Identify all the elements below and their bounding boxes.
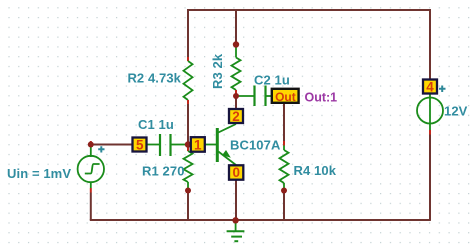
node 1 bbox=[191, 137, 205, 152]
junction V1 top corner bbox=[88, 142, 94, 148]
label Out:1 bbox=[305, 90, 338, 104]
label R4 10k bbox=[294, 163, 337, 178]
node 0 bbox=[229, 165, 243, 180]
resistor R4 bbox=[280, 141, 289, 189]
label 12V bbox=[444, 104, 468, 119]
svg-text:Uin = 1mV: Uin = 1mV bbox=[7, 166, 71, 181]
wire V1 to node 5 bbox=[91, 144, 133, 146]
svg-text:5: 5 bbox=[136, 138, 144, 153]
node 2 bbox=[229, 109, 243, 124]
junction node 1 bbox=[185, 141, 191, 147]
wire V1 bottom to rail bbox=[90, 193, 92, 221]
transistor Q1 BC107A bbox=[205, 124, 236, 165]
wire V2 bottom to rail bbox=[429, 135, 431, 221]
resistor R3 bbox=[232, 47, 241, 110]
wire R1 bottom to rail bbox=[187, 192, 189, 220]
wire right branch (rail to V2) bbox=[429, 9, 431, 80]
svg-text:R2 4.73k: R2 4.73k bbox=[127, 71, 181, 86]
label BC107A bbox=[230, 138, 281, 153]
label Uin = 1mV bbox=[7, 166, 71, 181]
svg-text:12V: 12V bbox=[444, 104, 468, 119]
label C2 1u bbox=[254, 73, 290, 88]
label R1 270 bbox=[142, 164, 185, 179]
wire R4 bottom to rail bbox=[283, 192, 285, 220]
svg-text:C1 1u: C1 1u bbox=[138, 117, 174, 132]
wire R2 bottom to node 1 bbox=[187, 104, 189, 145]
svg-text:R3 2k: R3 2k bbox=[210, 53, 225, 89]
label R2 4.73k bbox=[127, 71, 181, 86]
svg-text:2: 2 bbox=[232, 109, 240, 124]
source V2 (12V) bbox=[417, 86, 446, 135]
wire top rail bbox=[188, 9, 430, 11]
wire left branch top (rail to R2) bbox=[187, 9, 189, 57]
svg-text:R1 270: R1 270 bbox=[142, 164, 185, 179]
svg-text:C2 1u: C2 1u bbox=[254, 73, 290, 88]
svg-text:0: 0 bbox=[232, 165, 240, 180]
svg-text:1: 1 bbox=[194, 137, 202, 152]
junction R1 bottom bbox=[185, 188, 191, 194]
wire node 0 to rail bbox=[235, 180, 237, 220]
node 4 bbox=[423, 79, 437, 94]
wire bottom rail bbox=[90, 219, 431, 221]
source V1 (Uin) bbox=[78, 141, 105, 193]
wire middle branch top (rail to R3) bbox=[235, 9, 237, 43]
Out tie bbox=[272, 89, 299, 104]
resistor R1 bbox=[184, 145, 193, 189]
junction R4 bottom bbox=[281, 188, 287, 194]
wire Out to R4 bbox=[283, 104, 285, 142]
ground bbox=[227, 220, 245, 241]
svg-text:4: 4 bbox=[426, 79, 434, 94]
junction R3 bottom / C2 bbox=[233, 93, 239, 99]
capacitor C1 bbox=[147, 134, 188, 156]
node 5 bbox=[133, 138, 147, 153]
svg-text:Out: Out bbox=[275, 90, 296, 104]
resistor R2 bbox=[184, 57, 193, 104]
junction top of R3 bbox=[233, 41, 239, 47]
junction ground on rail bbox=[232, 217, 238, 223]
svg-text:R4 10k: R4 10k bbox=[294, 163, 337, 178]
capacitor C2 bbox=[237, 86, 272, 107]
label C1 1u bbox=[138, 117, 174, 132]
svg-text:BC107A: BC107A bbox=[230, 138, 281, 153]
label R3 2k (vertical) bbox=[210, 53, 225, 89]
svg-text:Out:1: Out:1 bbox=[305, 90, 338, 104]
